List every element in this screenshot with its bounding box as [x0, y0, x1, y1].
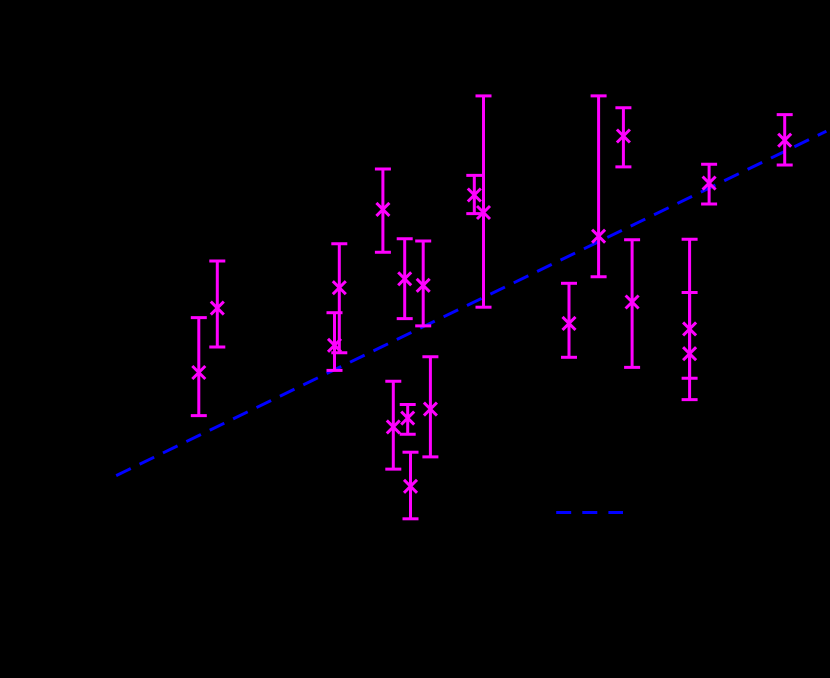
data point P6: error bar and x marker: [397, 239, 413, 319]
data point P17: error bar and x marker: [624, 240, 640, 368]
data point P8: error bar and x marker: [385, 381, 401, 469]
data point P15: error bar and x marker: [591, 96, 607, 277]
data point P3: error bar and x marker: [331, 244, 347, 353]
data point P13: error bar and x marker: [476, 96, 492, 307]
data point P20: error bar and x marker: [701, 164, 717, 204]
data point P7: error bar and x marker: [415, 241, 431, 326]
data point P9: error bar and x marker: [400, 405, 416, 435]
data point P10: error bar and x marker: [422, 357, 438, 457]
data point P2: error bar and x marker: [209, 261, 225, 347]
data point P19: error bar and x marker: [682, 293, 698, 400]
data point P14: error bar and x marker: [561, 283, 577, 357]
blue dashed linear fit line: [116, 131, 826, 475]
data point P4: error bar and x marker: [327, 313, 343, 371]
data point P18: error bar and x marker: [682, 239, 698, 378]
data point P1: error bar and x marker: [191, 318, 207, 416]
data point P16: error bar and x marker: [615, 108, 631, 167]
legend sample: blue dashed line segment: [556, 511, 623, 514]
data point P5: error bar and x marker: [375, 169, 391, 252]
data point P12: error bar and x marker: [466, 175, 482, 213]
data point P21: error bar and x marker: [777, 115, 793, 165]
data point P11: error bar and x marker: [403, 452, 419, 519]
